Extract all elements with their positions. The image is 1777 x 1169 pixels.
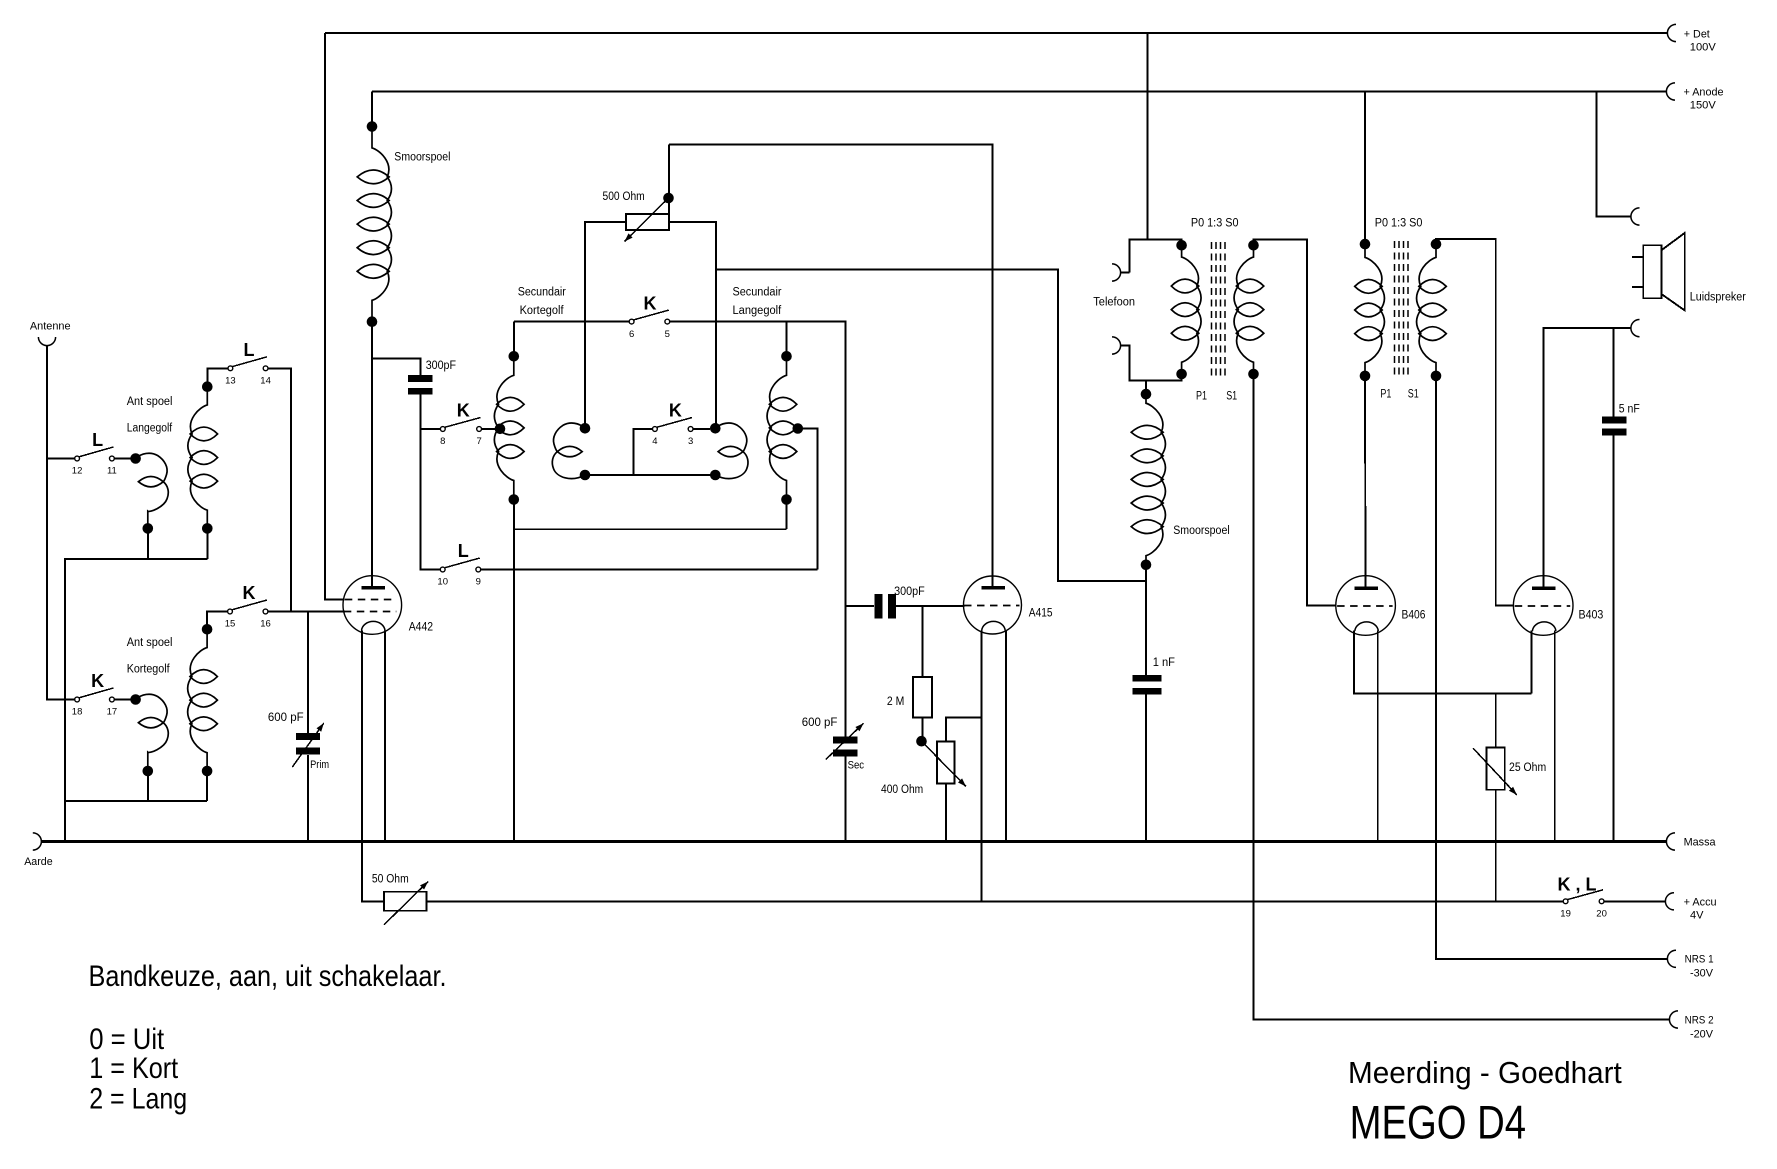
inductor antenna primary kortegolf [136, 694, 168, 722]
svg-text:18: 18 [72, 707, 83, 718]
wire telefoon top row [1130, 240, 1182, 273]
wire t2 primary bottom to B406 plate [1364, 376, 1367, 588]
inductor secundair langegolf coupling [715, 423, 747, 452]
inductor antenna primary langegolf [136, 453, 168, 481]
wire 300pF line to switch 10 [421, 429, 441, 570]
junction sec K small top [580, 423, 591, 434]
switch K,L contacts 19-20 [1563, 899, 1568, 904]
wire A442 right filament [384, 631, 386, 842]
wire t1 secondary top to B406 grid [1254, 240, 1337, 606]
arrow 400 Ohm wiper [922, 741, 967, 786]
junction grid leak return [916, 736, 927, 747]
svg-text:L: L [458, 541, 469, 561]
terminal Aarde [33, 833, 42, 850]
wire antenna lead [47, 346, 75, 700]
wire contact 7 to tap [482, 428, 500, 430]
wire B406 right filament [1377, 631, 1379, 842]
wire B403 right filament [1554, 631, 1556, 842]
junction smoorspoel2 top [1141, 389, 1152, 400]
svg-text:4: 4 [652, 436, 657, 447]
svg-text:500 Ohm: 500 Ohm [603, 191, 645, 203]
svg-text:19: 19 [1560, 909, 1571, 920]
wire coil to contact 15 [207, 612, 228, 630]
wire 1nF to bus [1145, 695, 1147, 842]
svg-text:Secundair: Secundair [518, 286, 566, 298]
junction sec K tap [495, 424, 506, 435]
junction sec L tap [793, 423, 804, 434]
svg-text:K: K [457, 401, 470, 421]
switch K contacts 15-16 [228, 609, 233, 614]
svg-text:0 = Uit: 0 = Uit [89, 1023, 165, 1056]
wire detector bypass [716, 269, 1146, 581]
node +Anode rail (150V supply wire) [372, 91, 1666, 93]
svg-text:Smoorspoel: Smoorspoel [1173, 525, 1230, 537]
switch K contacts 6-5 [629, 319, 634, 324]
core transformer 2 [1394, 241, 1396, 379]
inductor Smoorspoel (anode choke) [372, 127, 391, 322]
capacitor 600pF Prim (tuning) [296, 733, 320, 740]
svg-text:Bandkeuze, aan, uit schakelaar: Bandkeuze, aan, uit schakelaar. [89, 960, 447, 993]
wire 500 Ohm right [669, 222, 716, 424]
svg-text:600 pF: 600 pF [268, 712, 304, 724]
wire grid leak stub [921, 606, 923, 677]
wire contact 5 right [670, 322, 846, 737]
wire B406 left filament [1354, 631, 1532, 694]
junction t2 secondary top [1431, 239, 1442, 250]
switch L contacts 12-11 [75, 456, 80, 461]
resistor 400 Ohm [937, 742, 955, 784]
switch K contacts 18-17 [75, 697, 80, 702]
wire coupling cap to A415 grid [896, 605, 965, 607]
wire langegolf sec top stub [786, 322, 788, 352]
svg-text:K: K [669, 401, 682, 421]
wire row to kortegolf sec top [513, 322, 515, 352]
wire t2 secondary bottom to NRS1 [1436, 376, 1667, 959]
junction ant secondary K bottom [202, 766, 213, 777]
svg-text:14: 14 [260, 376, 271, 387]
svg-text:20: 20 [1596, 909, 1607, 920]
junction Smoorspoel top [367, 121, 378, 132]
wire Prim cap to bus [307, 755, 309, 842]
svg-text:15: 15 [225, 619, 236, 630]
svg-text:2 = Lang: 2 = Lang [89, 1082, 187, 1115]
junction ant primary K top [130, 694, 141, 705]
terminal NRS 1 [1667, 950, 1676, 967]
svg-text:400 Ohm: 400 Ohm [881, 784, 923, 796]
node +Det rail (100V supply wire) [325, 32, 1667, 34]
wire accu feed [427, 900, 1564, 902]
wire coil to contact 13 [207, 368, 228, 386]
svg-text:A442: A442 [409, 622, 433, 634]
tube B406 (first AF) [1336, 576, 1396, 636]
inductor antenna secondary langegolf [188, 387, 207, 529]
capacitor 5 nF [1602, 417, 1627, 424]
svg-text:2 M: 2 M [887, 696, 904, 708]
tube A442 (RF tetrode) [343, 576, 402, 635]
junction t2 primary top [1360, 239, 1371, 250]
junction t2 primary bottom [1360, 371, 1371, 382]
resistor 2M grid leak [913, 677, 932, 717]
wire contact 9 to langegolf tap line [481, 569, 818, 571]
junction Smoorspoel bottom [367, 316, 378, 327]
wire +Det drop to A442 screen grid [325, 33, 345, 600]
switch K contacts 4-3 [653, 427, 658, 432]
wire kortegolf secondary bottom stub [206, 771, 208, 801]
svg-text:Luidspreker: Luidspreker [1690, 292, 1746, 304]
tube A415 (detector triode) [964, 576, 1022, 634]
svg-text:Secundair: Secundair [733, 286, 782, 298]
junction smoorspoel2 bottom [1141, 560, 1152, 571]
inductor transformer1 secondary S0-S1 [1234, 245, 1253, 374]
svg-text:K , L: K , L [1558, 875, 1597, 895]
wire 300pF to switch 8 [421, 395, 441, 430]
svg-text:3: 3 [688, 436, 693, 447]
arrow 50 Ohm [384, 882, 428, 925]
speaker Luidspreker [1643, 245, 1661, 298]
junction sec L top [781, 351, 792, 362]
wire anode feed to A415 [669, 145, 993, 589]
svg-text:16: 16 [260, 619, 271, 630]
wire smoorspoel2 stub [1145, 380, 1147, 394]
svg-text:600 pF: 600 pF [802, 717, 838, 729]
inductor secundair langegolf main [767, 356, 786, 499]
terminal +Det [1667, 24, 1676, 41]
inductor transformer2 primary P0-P1 [1365, 244, 1384, 376]
svg-text:1 nF: 1 nF [1153, 657, 1175, 669]
svg-text:+ Accu: + Accu [1684, 897, 1717, 909]
inductor transformer1 primary P0-P1 [1182, 245, 1201, 374]
wire 500 Ohm left [585, 222, 626, 424]
inductor Smoorspoel (telefoon choke) [1146, 394, 1165, 565]
inductor antenna secondary kortegolf [188, 629, 207, 771]
svg-text:50 Ohm: 50 Ohm [372, 873, 409, 885]
junction t2 secondary bottom [1431, 371, 1442, 382]
wire det drop [1147, 33, 1149, 240]
svg-text:Sec: Sec [848, 760, 865, 772]
wire 400 Ohm bottom [945, 784, 947, 842]
arrow 500 Ohm wiper [625, 198, 669, 242]
switch L contacts 13-14 [228, 366, 233, 371]
inductor secundair kortegolf coupling [553, 423, 585, 452]
wire A442 left filament [362, 631, 384, 902]
junction t1 secondary bottom [1248, 369, 1259, 380]
junction sec K small bottom [580, 470, 591, 481]
svg-text:7: 7 [476, 436, 481, 447]
capacitor 1 nF [1133, 675, 1162, 682]
wire 500 Ohm wiper feed [668, 145, 670, 223]
svg-text:+ Anode: + Anode [1684, 87, 1724, 99]
junction ant primary K bottom [143, 766, 154, 777]
svg-text:25 Ohm: 25 Ohm [1509, 762, 1546, 774]
wire filament feed via 25 Ohm [1495, 694, 1497, 748]
svg-text:P1: P1 [1380, 389, 1391, 401]
wire Smoorspoel to A442 plate [371, 322, 373, 588]
tube B403 (output) [1513, 576, 1573, 636]
terminal Telefoon lower [1112, 337, 1121, 354]
wire Massa bus [41, 840, 1666, 843]
svg-text:4V: 4V [1690, 910, 1704, 922]
wire sec cap to bus [844, 757, 846, 842]
svg-text:Langegolf: Langegolf [127, 422, 173, 434]
svg-text:Smoorspoel: Smoorspoel [394, 151, 450, 163]
svg-text:300pF: 300pF [894, 586, 925, 598]
core transformer 1 [1211, 242, 1213, 379]
svg-text:-20V: -20V [1690, 1029, 1714, 1041]
switch K contacts 8-7 [440, 427, 445, 432]
switch L contacts 10-9 [440, 567, 445, 572]
wire grid row down to Prim cap [307, 612, 309, 734]
wire small coils join [585, 474, 634, 476]
svg-text:B403: B403 [1579, 610, 1604, 622]
inductor transformer2 secondary S0-S1 [1417, 244, 1436, 376]
wire antenna to switch 12 [47, 458, 75, 460]
wire 5nF to bus [1613, 436, 1615, 842]
svg-text:9: 9 [476, 577, 481, 588]
junction t1 secondary top [1248, 240, 1259, 251]
capacitor 600pF Sec (tuning) [833, 737, 858, 744]
wire B403 left filament [1530, 631, 1532, 694]
wire t2 secondary top to B403 grid [1436, 239, 1514, 606]
svg-text:K: K [91, 671, 104, 691]
wire A415 right filament [1005, 631, 1007, 842]
svg-text:P0 1:3 S0: P0 1:3 S0 [1375, 217, 1423, 229]
junction sec K bottom [509, 494, 520, 505]
svg-text:NRS 1: NRS 1 [1685, 954, 1714, 966]
junction ant secondary L bottom [202, 523, 213, 534]
wire Anode rail to Smoorspoel [371, 92, 373, 127]
junction ant primary L top [130, 453, 141, 464]
wire 25 Ohm to accu wire [1495, 790, 1497, 902]
svg-text:K: K [243, 583, 256, 603]
svg-text:8: 8 [440, 436, 445, 447]
svg-text:B406: B406 [1402, 610, 1426, 622]
wire contact 16 to grid line [268, 611, 345, 613]
svg-text:Kortegolf: Kortegolf [127, 663, 171, 675]
wire kortegolf sec bottom to bus [513, 500, 515, 842]
svg-text:1 = Kort: 1 = Kort [89, 1052, 179, 1085]
svg-text:MEGO D4: MEGO D4 [1350, 1096, 1526, 1149]
wire branch to 300pF [372, 359, 421, 376]
svg-text:11: 11 [107, 466, 117, 477]
svg-text:Telefoon: Telefoon [1093, 297, 1135, 309]
svg-text:K: K [644, 293, 657, 313]
wire contact 20 to accu terminal [1604, 900, 1665, 902]
svg-text:300pF: 300pF [426, 360, 456, 372]
arrow 25 Ohm [1473, 748, 1517, 795]
junction sec L small top [710, 423, 721, 434]
wire smoorspoel2 to 1nF [1145, 565, 1147, 675]
svg-text:6: 6 [629, 329, 634, 340]
wire speaker line to 5nF [1613, 328, 1615, 416]
wire sec bottoms join [514, 528, 787, 530]
inductor secundair kortegolf main [494, 356, 513, 499]
terminal Massa [1666, 833, 1675, 850]
junction t1 primary top [1176, 240, 1187, 251]
junction ant secondary K top [202, 624, 213, 635]
terminal speaker lower [1631, 320, 1640, 337]
svg-text:Massa: Massa [1684, 837, 1717, 849]
svg-text:P0 1:3 S0: P0 1:3 S0 [1191, 217, 1239, 229]
arrow sec cap [826, 723, 864, 759]
svg-text:5: 5 [665, 329, 670, 340]
wire 400 Ohm top [946, 717, 982, 741]
svg-text:17: 17 [107, 707, 118, 718]
svg-text:S1: S1 [1226, 390, 1237, 402]
svg-text:Ant spoel: Ant spoel [127, 396, 173, 408]
terminal Antenne [38, 337, 55, 346]
wire switch row kortegolf [514, 321, 629, 323]
svg-text:13: 13 [225, 376, 236, 387]
svg-text:S1: S1 [1408, 389, 1419, 401]
junction sec K top [509, 351, 520, 362]
capacitor 300pF coupling [875, 594, 883, 619]
junction sec L small bottom [710, 470, 721, 481]
junction ant primary L bottom [143, 523, 154, 534]
terminal NRS 2 [1669, 1011, 1678, 1028]
svg-text:100V: 100V [1690, 42, 1717, 54]
svg-text:Aarde: Aarde [24, 856, 53, 868]
wire langegolf bottoms join [148, 558, 208, 560]
terminal speaker upper [1631, 208, 1640, 225]
wire langegolf sec bottom stub [786, 500, 788, 530]
svg-text:+ Det: + Det [1684, 29, 1710, 41]
svg-text:10: 10 [437, 577, 448, 588]
wire 2M to wiper dot [921, 717, 923, 737]
svg-text:-30V: -30V [1690, 968, 1714, 980]
svg-text:Langegolf: Langegolf [733, 305, 782, 317]
wire contact 3 to coil [693, 428, 710, 430]
svg-text:L: L [92, 430, 103, 450]
resistor 50 Ohm [384, 892, 427, 911]
svg-text:P1: P1 [1196, 390, 1207, 402]
wire langegolf coil bottoms [65, 528, 148, 841]
junction 500 Ohm wiper [663, 193, 674, 204]
wire kortegolf bottoms join [148, 800, 207, 802]
svg-text:L: L [244, 340, 255, 360]
resistor 25 Ohm [1487, 748, 1505, 790]
wire contact 14 down to switch 16 row [268, 368, 291, 611]
wire t1 secondary bottom to NRS2 [1254, 374, 1670, 1020]
wire A415 left filament [981, 631, 983, 902]
svg-text:Kortegolf: Kortegolf [520, 305, 565, 317]
junction t1 primary bottom [1176, 369, 1187, 380]
svg-text:Ant spoel: Ant spoel [127, 637, 173, 649]
svg-text:Prim: Prim [310, 759, 329, 771]
wire anode to t2 primary [1364, 92, 1366, 245]
svg-text:5 nF: 5 nF [1619, 404, 1640, 416]
wire contact 4 loop [634, 429, 716, 475]
wire telefoon bottom row [1121, 346, 1182, 381]
terminal +Accu [1665, 893, 1674, 910]
wire tap line up [800, 429, 818, 570]
svg-text:12: 12 [72, 466, 83, 477]
svg-text:NRS 2: NRS 2 [1685, 1015, 1714, 1027]
wire speaker lower to B403 plate [1544, 328, 1631, 588]
terminal Telefoon upper [1112, 264, 1121, 281]
wire telefoon top jack stub [1121, 272, 1130, 274]
terminal +Anode [1666, 83, 1675, 100]
junction ant secondary L top [202, 381, 213, 392]
wire anode to speaker upper [1596, 92, 1631, 217]
arrow prim cap [292, 723, 324, 767]
wire sec line to coupling cap [845, 605, 874, 607]
junction sec L bottom [781, 494, 792, 505]
wire langegolf secondary bottom stub [206, 528, 208, 559]
capacitor 300pF (A442 grid) [408, 375, 433, 382]
wire kortegolf coil bottoms [65, 771, 148, 801]
svg-text:Meerding - Goedhart: Meerding - Goedhart [1348, 1056, 1622, 1090]
wire contact 11 to coil [114, 458, 131, 460]
wire contact 17 to coil [114, 699, 131, 701]
svg-text:150V: 150V [1690, 100, 1717, 112]
svg-text:Antenne: Antenne [30, 321, 71, 333]
svg-text:A415: A415 [1029, 608, 1053, 620]
resistor 500 Ohm [626, 214, 669, 230]
